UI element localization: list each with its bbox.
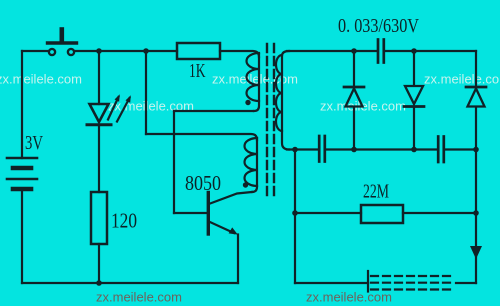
svg-text:0. 033/630V: 0. 033/630V [338, 15, 419, 37]
wire secondary bottom rail [287, 148, 318, 150]
pushbutton switch S1 [48, 30, 77, 56]
svg-text:zx.meilele.com: zx.meilele.com [306, 290, 392, 305]
wire 22M right [403, 212, 476, 214]
wire feedback vertical to lower winding [145, 51, 147, 134]
svg-text:zx.meilele.com: zx.meilele.com [96, 290, 182, 305]
diode D2 [404, 51, 424, 150]
svg-text:1K: 1K [189, 60, 206, 82]
wire LED anode [98, 51, 100, 104]
capacitor 0.033/630V [378, 40, 384, 63]
transformer core [267, 44, 274, 196]
node D2 top [411, 48, 417, 54]
wire left vertical upper (battery plus to top rail) [21, 51, 23, 158]
wire ground vertical [294, 150, 296, 284]
resistor 1K [177, 43, 220, 59]
wire base horizontal [174, 212, 207, 214]
node LED branch [96, 48, 102, 54]
wire bottom-left rail [22, 282, 238, 284]
wire winding tap to base vertical [174, 110, 253, 112]
node ground branch [292, 147, 298, 153]
transistor 8050 [208, 192, 252, 283]
capacitor C3 [438, 137, 444, 163]
wire rail to right vertical [445, 148, 476, 150]
node 22M right [473, 210, 479, 216]
transformer T1 primary top winding [246, 53, 259, 111]
wire LED cathode to 120 resistor [98, 127, 100, 192]
LED [87, 94, 131, 125]
svg-text:3V: 3V [25, 132, 43, 154]
wire 22M left [295, 212, 361, 214]
svg-text:120: 120 [111, 209, 137, 233]
wire top-left from battery to switch [22, 50, 48, 52]
capacitor C2 [319, 136, 325, 162]
wire bottom right [456, 282, 476, 284]
phase dot lower winding [243, 182, 248, 187]
wire rail between caps [326, 148, 437, 150]
node feedback branch [143, 48, 149, 54]
current arrow [470, 246, 482, 259]
node 22M left [292, 210, 298, 216]
wire secondary top to cap [287, 50, 377, 52]
node D2 bottom [411, 147, 417, 153]
svg-text:zx.meilele.com: zx.meilele.com [0, 72, 82, 87]
dashed load box [368, 271, 454, 292]
transformer T1 primary lower winding [245, 138, 258, 192]
wire base vertical [173, 111, 175, 213]
node D3 bottom [473, 147, 479, 153]
battery 3V [7, 158, 37, 189]
diode D3 [466, 51, 486, 150]
node bottom rail LED branch [96, 280, 102, 286]
wire output vertical [475, 150, 477, 283]
wire bottom mid rail [295, 282, 368, 284]
resistor 120 [91, 192, 107, 244]
wire 120 resistor to bottom rail [98, 244, 100, 283]
wire switch to 1K resistor [75, 50, 178, 52]
transformer secondary winding [276, 51, 289, 150]
svg-text:22M: 22M [363, 181, 389, 203]
svg-text:8050: 8050 [185, 171, 221, 195]
phase dot top winding [245, 100, 250, 105]
svg-text:zx.meilele.com: zx.meilele.com [424, 72, 500, 87]
wire 1K to primary top winding [220, 51, 259, 57]
node D1 top [351, 48, 357, 54]
diode D1 [344, 51, 364, 150]
wire cap to top-right corner [386, 50, 476, 52]
wire to lower winding top [146, 134, 257, 140]
resistor 22M [361, 205, 403, 223]
wire left vertical lower (battery minus to bottom rail) [21, 191, 23, 283]
node D1 bottom [351, 147, 357, 153]
